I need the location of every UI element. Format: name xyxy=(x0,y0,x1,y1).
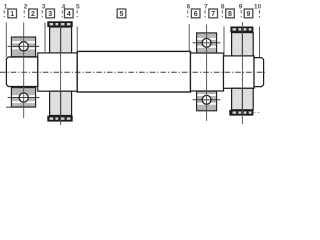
leader line 2 / bearing centerline left xyxy=(23,10,26,118)
shaft section S2 left seat xyxy=(38,53,77,91)
block K1 upper body xyxy=(232,33,254,56)
bearing B2 lower left xyxy=(6,88,39,108)
leader line 6 xyxy=(188,10,189,51)
leader line 8 xyxy=(222,10,224,56)
svg-text:8: 8 xyxy=(221,4,225,11)
block K1 upper cap plate xyxy=(230,27,253,33)
gear G1 upper body xyxy=(50,27,72,53)
svg-text:1: 1 xyxy=(10,11,14,18)
leader line 3 xyxy=(42,10,45,53)
shaft section S1 left stub xyxy=(6,57,37,87)
svg-text:2: 2 xyxy=(24,4,28,11)
part box 1 xyxy=(8,9,17,18)
svg-text:10: 10 xyxy=(254,4,262,11)
bearing B3 upper right xyxy=(193,33,221,53)
gear G1 lower body xyxy=(50,91,72,115)
svg-text:2: 2 xyxy=(31,11,35,18)
svg-text:7: 7 xyxy=(211,11,215,18)
part box 9 xyxy=(244,9,253,18)
leader line 1 xyxy=(4,10,6,57)
bearing B4 lower right xyxy=(193,91,221,111)
leader line 5 xyxy=(76,10,78,52)
svg-text:6: 6 xyxy=(187,4,191,11)
part box 7 xyxy=(209,9,218,18)
svg-text:9: 9 xyxy=(239,4,243,11)
block K1 lower body xyxy=(232,88,254,110)
leader line 10 xyxy=(259,10,261,57)
part box 5 xyxy=(117,9,126,18)
part box 3 xyxy=(46,9,55,18)
svg-text:8: 8 xyxy=(228,11,232,18)
shaft section S6 right stub xyxy=(254,58,264,87)
svg-text:6: 6 xyxy=(194,11,198,18)
faint seam line right of lower block cap xyxy=(254,112,261,114)
gear G1 lower cap plate xyxy=(47,116,72,122)
part box 2 xyxy=(29,9,38,18)
svg-text:7: 7 xyxy=(204,4,208,11)
part box 4 xyxy=(65,9,74,18)
svg-text:9: 9 xyxy=(247,11,251,18)
svg-text:1: 1 xyxy=(4,4,8,11)
leader line 4 / gear centerline xyxy=(61,10,63,125)
shaft section S4 right bearing seat xyxy=(191,53,224,91)
gear G1 upper cap plate xyxy=(47,21,72,27)
leader line 7 / bearing centerline right xyxy=(205,10,207,121)
leader line 9 / block centerline xyxy=(241,10,242,124)
svg-text:5: 5 xyxy=(76,4,80,11)
shaft section S3 middle cylinder xyxy=(77,51,190,92)
shaft section S5 right block seat xyxy=(224,56,255,88)
part box 8 xyxy=(226,9,235,18)
svg-text:4: 4 xyxy=(67,11,71,18)
centerline (shaft axis) xyxy=(0,71,265,73)
bearing B1 upper left xyxy=(8,37,40,57)
block K1 lower cap plate xyxy=(229,110,253,116)
part box 6 xyxy=(191,9,200,18)
svg-text:5: 5 xyxy=(120,11,124,18)
svg-text:3: 3 xyxy=(48,11,52,18)
svg-text:3: 3 xyxy=(42,4,46,11)
